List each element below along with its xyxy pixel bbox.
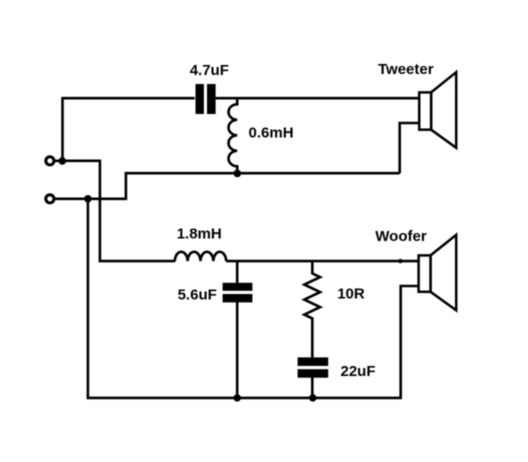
svg-text:10R: 10R — [337, 286, 365, 303]
svg-text:Tweeter: Tweeter — [378, 61, 434, 78]
svg-text:22uF: 22uF — [341, 363, 376, 380]
svg-text:5.6uF: 5.6uF — [178, 287, 217, 304]
svg-text:1.8mH: 1.8mH — [177, 225, 222, 242]
svg-text:Woofer: Woofer — [375, 228, 427, 245]
svg-text:0.6mH: 0.6mH — [249, 125, 294, 142]
svg-text:4.7uF: 4.7uF — [190, 62, 229, 79]
